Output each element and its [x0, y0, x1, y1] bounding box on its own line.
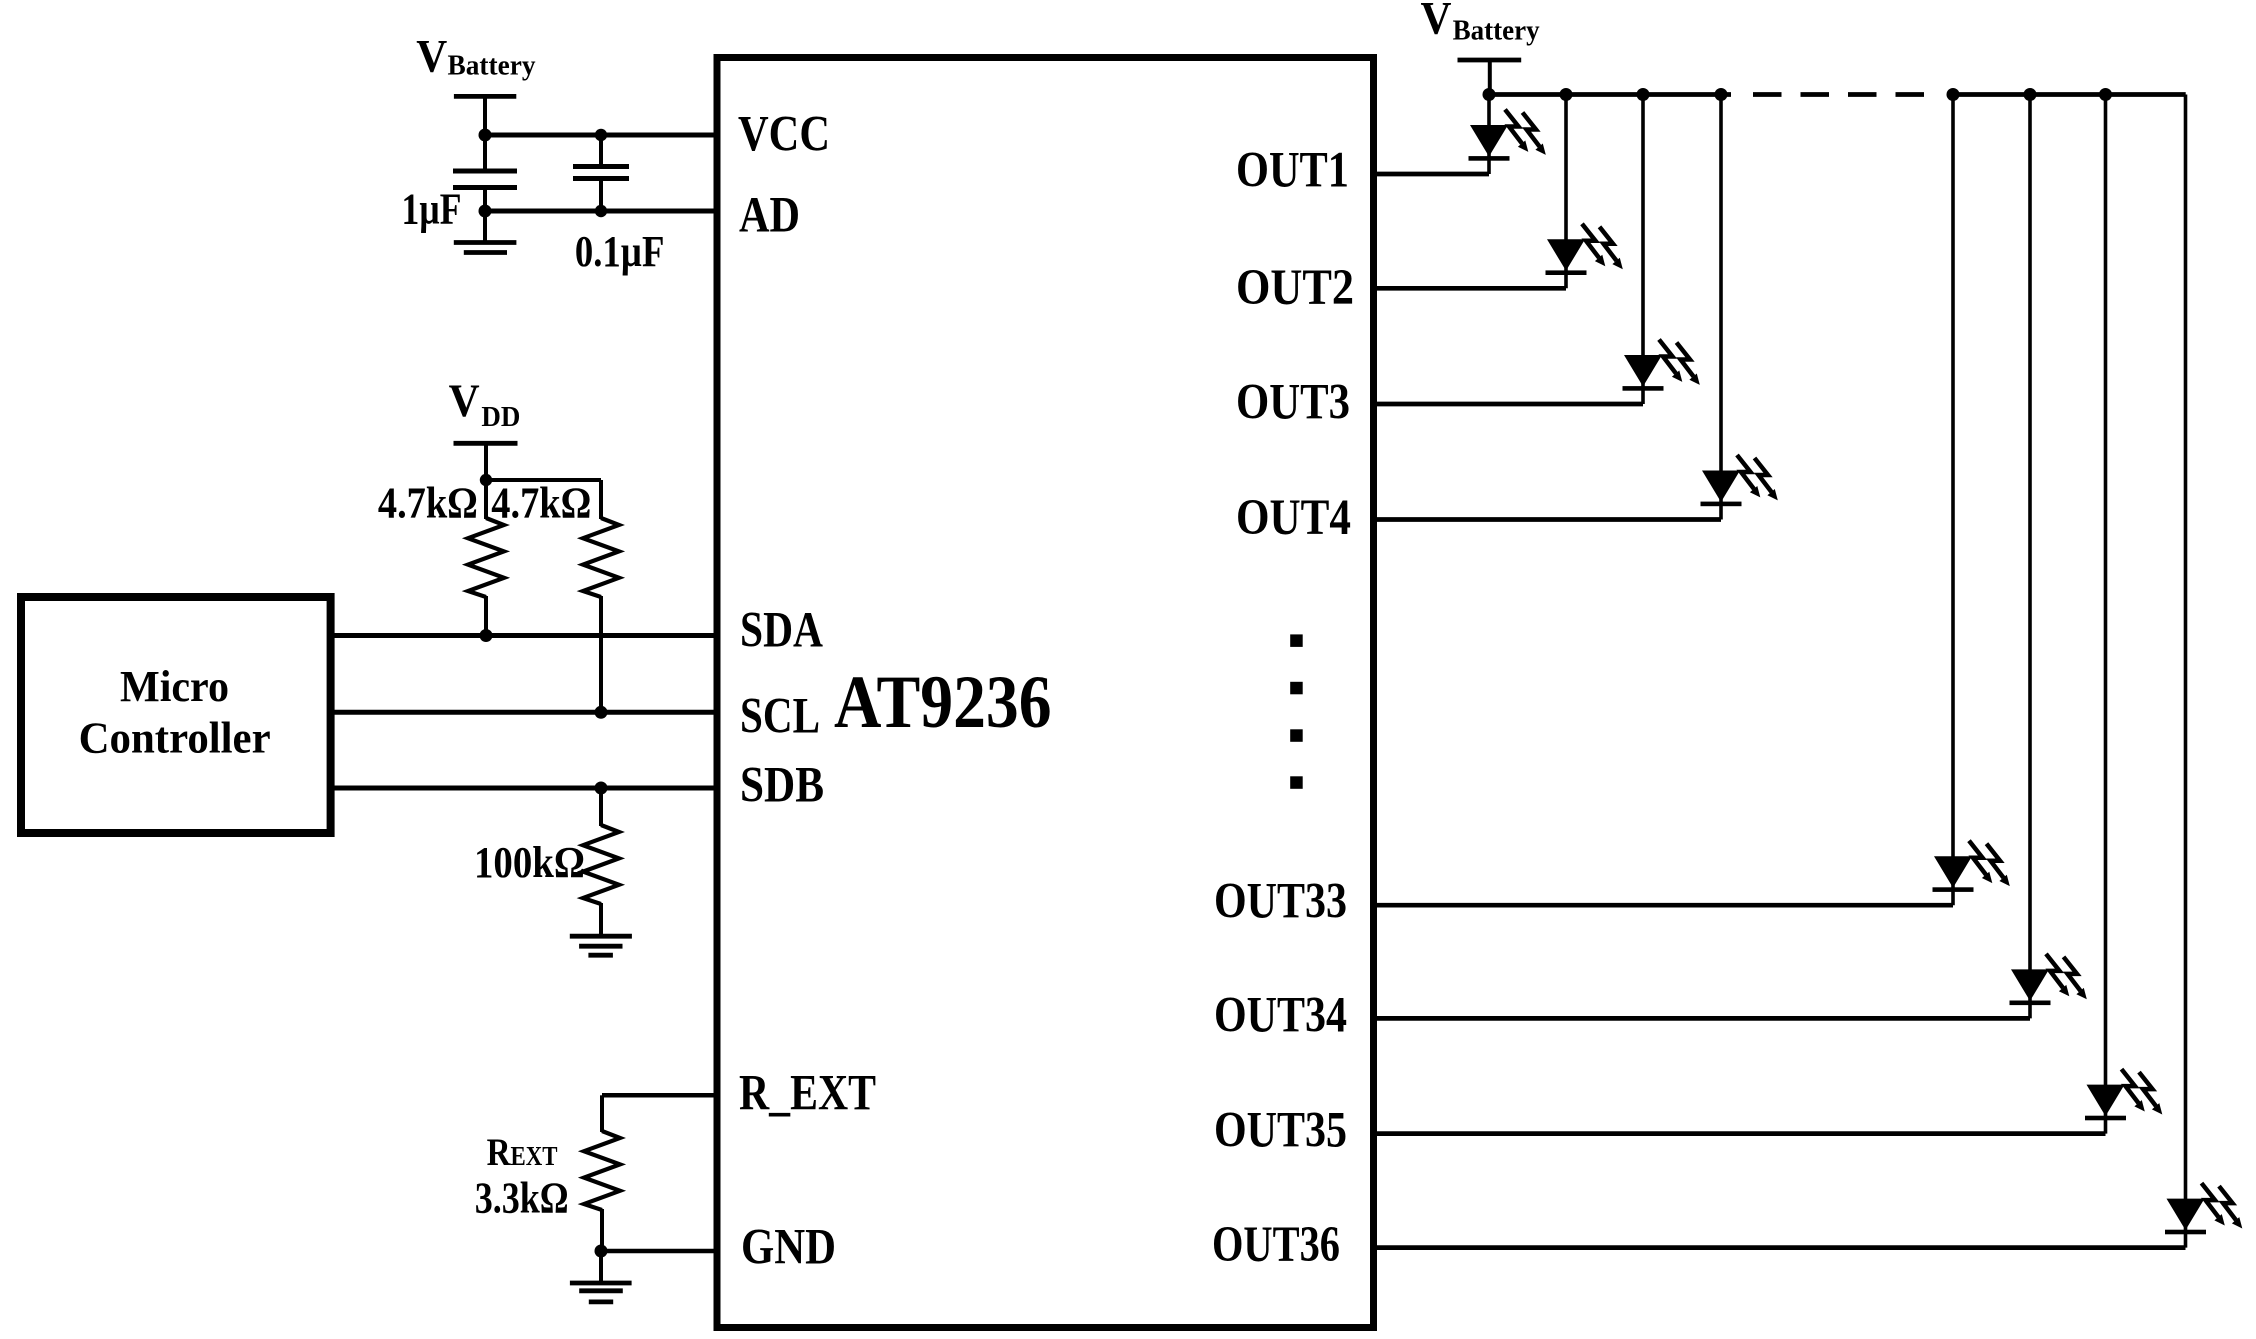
resistor R_EXT 3.3k: [600, 1095, 604, 1132]
wire bus down to D35: [2104, 95, 2108, 1134]
node V_DD junction: [480, 474, 492, 486]
wire OUT1 pin to LED: [1374, 172, 1490, 177]
node AD junction at C1: [479, 205, 492, 218]
svg-text:R: R: [487, 1131, 512, 1174]
wire OUT3 pin to LED: [1374, 402, 1644, 407]
LED D33: [1933, 841, 2010, 892]
node bus junction D34: [2024, 88, 2037, 101]
node SDA junction with R1: [480, 629, 493, 642]
node bus junction D1: [1483, 88, 1496, 101]
svg-text:0.1µF: 0.1µF: [575, 227, 665, 276]
wire bus down to D3: [1641, 95, 1645, 405]
svg-text:Battery: Battery: [1453, 15, 1540, 46]
LED D36: [2165, 1183, 2242, 1234]
svg-text:Controller: Controller: [79, 713, 271, 762]
wire bus down to D34: [2028, 95, 2032, 1019]
LED D3: [1623, 340, 1700, 391]
svg-text:Micro: Micro: [120, 662, 229, 711]
svg-text:OUT34: OUT34: [1214, 988, 1347, 1044]
svg-text:1µF: 1µF: [402, 185, 462, 234]
ground below R_EXT: [599, 1251, 603, 1283]
svg-text:OUT33: OUT33: [1214, 874, 1347, 930]
svg-text:OUT36: OUT36: [1212, 1217, 1340, 1273]
LED D1: [1469, 110, 1546, 161]
node bus junction D2: [1560, 88, 1573, 101]
IC U1 AT9236 body: [717, 58, 1374, 1328]
ground below C1: [483, 211, 487, 243]
ground below R3: [570, 934, 632, 939]
svg-text:SDA: SDA: [740, 602, 823, 658]
svg-text:4.7kΩ: 4.7kΩ: [491, 479, 591, 528]
wire bus down to D2: [1564, 95, 1568, 289]
capacitor C1 1uF: [483, 135, 487, 169]
wire LED anode bus (solid right part): [1950, 92, 2186, 97]
wire V_DD bar to node: [484, 443, 488, 482]
svg-text:OUT1: OUT1: [1236, 142, 1349, 198]
LED D2: [1546, 224, 1623, 275]
V_DD supply bar: [454, 441, 518, 446]
svg-text:V: V: [416, 31, 447, 83]
wire LED anode bus (solid left part): [1489, 92, 1731, 97]
node bus junction D33: [1947, 88, 1960, 101]
svg-text:OUT2: OUT2: [1236, 260, 1354, 316]
wire OUT34 pin to LED: [1374, 1016, 2031, 1021]
wire bus down to D4: [1719, 95, 1723, 520]
svg-text:SCL: SCL: [740, 689, 820, 745]
svg-text:OUT3: OUT3: [1236, 375, 1350, 431]
node GND junction: [595, 1245, 608, 1258]
node bus junction D35: [2099, 88, 2112, 101]
wire OUT4 pin to LED: [1374, 517, 1722, 522]
node AD junction at C2: [595, 205, 607, 217]
wire OUT35 pin to LED: [1374, 1131, 2106, 1136]
ellipsis dots for OUT5..OUT32: [1290, 634, 1303, 647]
resistor R2 4.7k (SCL pullup): [599, 480, 603, 519]
svg-text:EXT: EXT: [511, 1141, 558, 1171]
LED D34: [2010, 954, 2087, 1005]
svg-text:AT9236: AT9236: [834, 661, 1052, 744]
capacitor C2 0.1uF: [599, 135, 603, 167]
svg-text:DD: DD: [481, 402, 520, 433]
svg-text:VCC: VCC: [738, 107, 830, 163]
wire OUT33 pin to LED: [1374, 903, 1954, 908]
svg-text:GND: GND: [741, 1220, 836, 1276]
LED D35: [2085, 1069, 2162, 1120]
svg-text:3.3kΩ: 3.3kΩ: [475, 1173, 569, 1222]
wire bus down to D33: [1951, 95, 1955, 906]
wire GND node to IC pin GND: [601, 1249, 718, 1254]
svg-text:Battery: Battery: [448, 51, 536, 82]
node SDB junction with R3: [595, 782, 608, 795]
wire R_EXT pin to resistor: [602, 1093, 718, 1098]
wire SCL from MC to IC: [331, 710, 718, 715]
wire AD net to IC pin AD: [485, 209, 718, 214]
wire SDB from MC to IC: [331, 786, 718, 791]
svg-text:OUT4: OUT4: [1236, 490, 1351, 546]
Micro Controller block: [21, 597, 331, 833]
wire V_Battery bar to bus: [1488, 60, 1492, 96]
wire V_Battery bar to VCC node: [483, 96, 487, 137]
wire V_DD node to R2 top: [486, 478, 601, 482]
resistor R1 4.7k (SDA pullup): [484, 480, 488, 519]
V_Battery supply bar (right): [1458, 58, 1522, 63]
svg-text:V: V: [449, 375, 480, 427]
node VCC junction at C2: [595, 129, 607, 141]
wire SDA from MC to IC: [331, 633, 718, 638]
wire OUT36 pin to LED: [1374, 1245, 2186, 1250]
wire LED anode bus (dashed part): [1753, 92, 1933, 97]
node bus junction D3: [1637, 88, 1650, 101]
LED D4: [1701, 455, 1778, 506]
node SCL junction with R2: [595, 706, 608, 719]
node bus junction D4: [1715, 88, 1728, 101]
svg-text:AD: AD: [739, 187, 800, 243]
wire OUT2 pin to LED: [1374, 286, 1567, 291]
resistor R3 100k (SDB pulldown): [599, 788, 603, 826]
svg-text:SDB: SDB: [740, 758, 824, 814]
wire VCC net to IC pin VCC: [485, 133, 718, 138]
node VCC junction at C1: [479, 129, 492, 142]
svg-text:OUT35: OUT35: [1214, 1103, 1347, 1159]
svg-text:4.7kΩ: 4.7kΩ: [378, 479, 478, 528]
svg-text:100kΩ: 100kΩ: [474, 838, 585, 887]
svg-text:V: V: [1421, 0, 1452, 45]
wire bus down to D1: [1487, 95, 1491, 175]
wire bus down to D36: [2184, 95, 2188, 1248]
V_Battery supply bar (left): [454, 94, 516, 99]
svg-text:R_EXT: R_EXT: [739, 1065, 876, 1121]
